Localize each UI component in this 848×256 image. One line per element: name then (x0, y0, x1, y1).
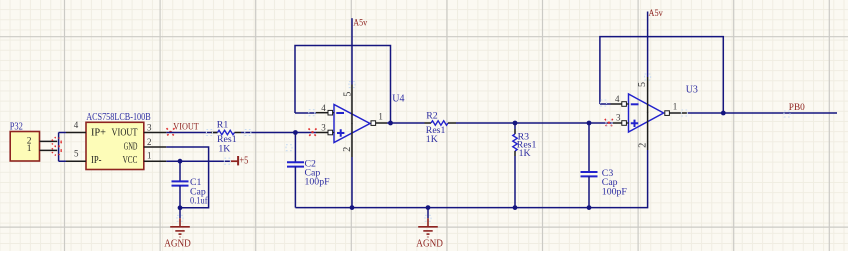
resistor R1 (211, 120, 241, 155)
junction C3 top (587, 121, 592, 126)
pin 1 of IC (VCC) (144, 160, 167, 162)
pin 3 of U3 (613, 122, 622, 124)
svg-text:R1: R1 (217, 120, 229, 131)
pin 2 of P32 (40, 140, 58, 142)
editor hotspot marks (177, 74, 790, 221)
svg-text:VIOUT: VIOUT (112, 128, 138, 139)
pin 4 of IC (IP+) (66, 132, 86, 134)
pin 1 of U3 (output) (665, 111, 670, 116)
svg-text:IP+: IP+ (91, 128, 106, 139)
junction rail AGND (426, 205, 431, 210)
svg-text:IP-: IP- (91, 155, 102, 166)
svg-text:A5v: A5v (353, 18, 367, 28)
wire R2 to U3 (456, 122, 613, 124)
svg-text:1: 1 (27, 144, 32, 154)
wire GND pin to C1 bottom (166, 147, 208, 208)
svg-text:A5v: A5v (649, 9, 664, 19)
junction C1 top (178, 159, 183, 164)
svg-text:AGND: AGND (416, 237, 443, 249)
ground AGND (rail) (416, 208, 443, 250)
pin 3 of IC (VIOUT) (144, 132, 167, 134)
power +A5v (U3) (648, 9, 663, 77)
svg-text:+5: +5 (239, 156, 248, 167)
no-ERC cross on U3 pin 3 (605, 119, 613, 127)
power +5 (230, 156, 248, 167)
svg-text:VIOUT: VIOUT (173, 123, 199, 133)
svg-text:5: 5 (74, 149, 79, 159)
svg-text:1K: 1K (426, 134, 438, 145)
wire P32 to U1 inputs (59, 133, 66, 162)
svg-text:AGND: AGND (164, 237, 191, 249)
svg-text:0.1uf: 0.1uf (190, 196, 208, 207)
wire U3 output to PB0 (687, 112, 837, 114)
junction rail R3 (513, 205, 518, 210)
resistor R3 (513, 123, 537, 208)
wire U3 feedback loop (600, 37, 723, 113)
capacitor C2 (287, 133, 330, 208)
wire ground rail (295, 150, 647, 208)
svg-text:ACS758LCB-100B: ACS758LCB-100B (86, 112, 151, 123)
svg-text:5: 5 (637, 82, 648, 87)
junction rail U4 pin2 (350, 205, 355, 210)
svg-text:100pF: 100pF (602, 186, 628, 197)
pin 5 of IC (IP-) (66, 160, 86, 162)
svg-text:VCC: VCC (123, 155, 138, 166)
svg-text:100pF: 100pF (305, 177, 331, 188)
capacitor C1 (172, 161, 209, 208)
pin 5 of U3 (V+) (647, 77, 649, 113)
pin 2 of U3 (V-) (647, 113, 649, 151)
svg-text:5: 5 (342, 92, 353, 97)
wire U4 output to R2 (387, 122, 425, 124)
svg-text:3: 3 (616, 112, 621, 122)
wire VIOUT row (166, 132, 217, 134)
junction U3 output (721, 111, 726, 116)
connector P32 (10, 122, 40, 161)
wire U4 feedback loop (295, 46, 391, 124)
wire VCC row (166, 160, 230, 162)
junction C2 tap (293, 130, 298, 135)
resistor R2 (425, 110, 457, 145)
svg-text:4: 4 (321, 103, 326, 113)
op-amp U4 (334, 93, 405, 142)
wire U4 pin2 to rail (351, 157, 353, 208)
no-ERC marker circle bottom (52, 146, 61, 155)
svg-text:2: 2 (147, 137, 152, 147)
svg-text:4: 4 (615, 94, 620, 104)
ground AGND (C1) (164, 208, 191, 250)
svg-text:PB0: PB0 (789, 103, 805, 113)
svg-text:3: 3 (147, 122, 152, 132)
IC ACS758LCB-100B (86, 112, 151, 169)
pin 3 of U4 (316, 132, 328, 134)
svg-text:1K: 1K (218, 144, 230, 155)
pin 2 of IC (GND) (144, 146, 167, 148)
no-ERC cross on U4 pin 3 (309, 129, 317, 137)
pin 4 of U4 (316, 112, 328, 114)
no-ERC cross on VIOUT pin (167, 128, 175, 136)
svg-text:R2: R2 (426, 110, 438, 121)
wire R1 to U4 (241, 132, 316, 134)
svg-text:2: 2 (637, 143, 648, 148)
svg-text:1: 1 (147, 151, 152, 161)
svg-text:1: 1 (378, 112, 383, 122)
junction rail C3 (587, 205, 592, 210)
power +A5v (U4) (352, 18, 368, 84)
svg-text:U4: U4 (392, 93, 404, 104)
capacitor C3 (581, 123, 628, 208)
junction R3 top (513, 121, 518, 126)
junction C1 bottom (178, 205, 183, 210)
pin 5 of U4 (V+) (351, 85, 353, 124)
no-ERC marker circle top (52, 137, 61, 146)
svg-text:GND: GND (124, 142, 138, 153)
svg-text:2: 2 (342, 147, 353, 152)
op-amp U3 (629, 85, 698, 133)
svg-text:4: 4 (74, 120, 79, 130)
pin 1 of P32 (40, 149, 58, 151)
svg-text:U3: U3 (686, 85, 698, 96)
junction U4 output (388, 121, 393, 126)
pin 1 of U4 (output) (371, 121, 376, 126)
svg-text:P32: P32 (10, 122, 23, 133)
pin 4 of U3 (611, 103, 622, 105)
svg-text:3: 3 (321, 122, 326, 132)
svg-text:1K: 1K (519, 148, 531, 159)
pin 2 of U4 (V-) (351, 123, 353, 157)
svg-text:1: 1 (673, 102, 678, 112)
